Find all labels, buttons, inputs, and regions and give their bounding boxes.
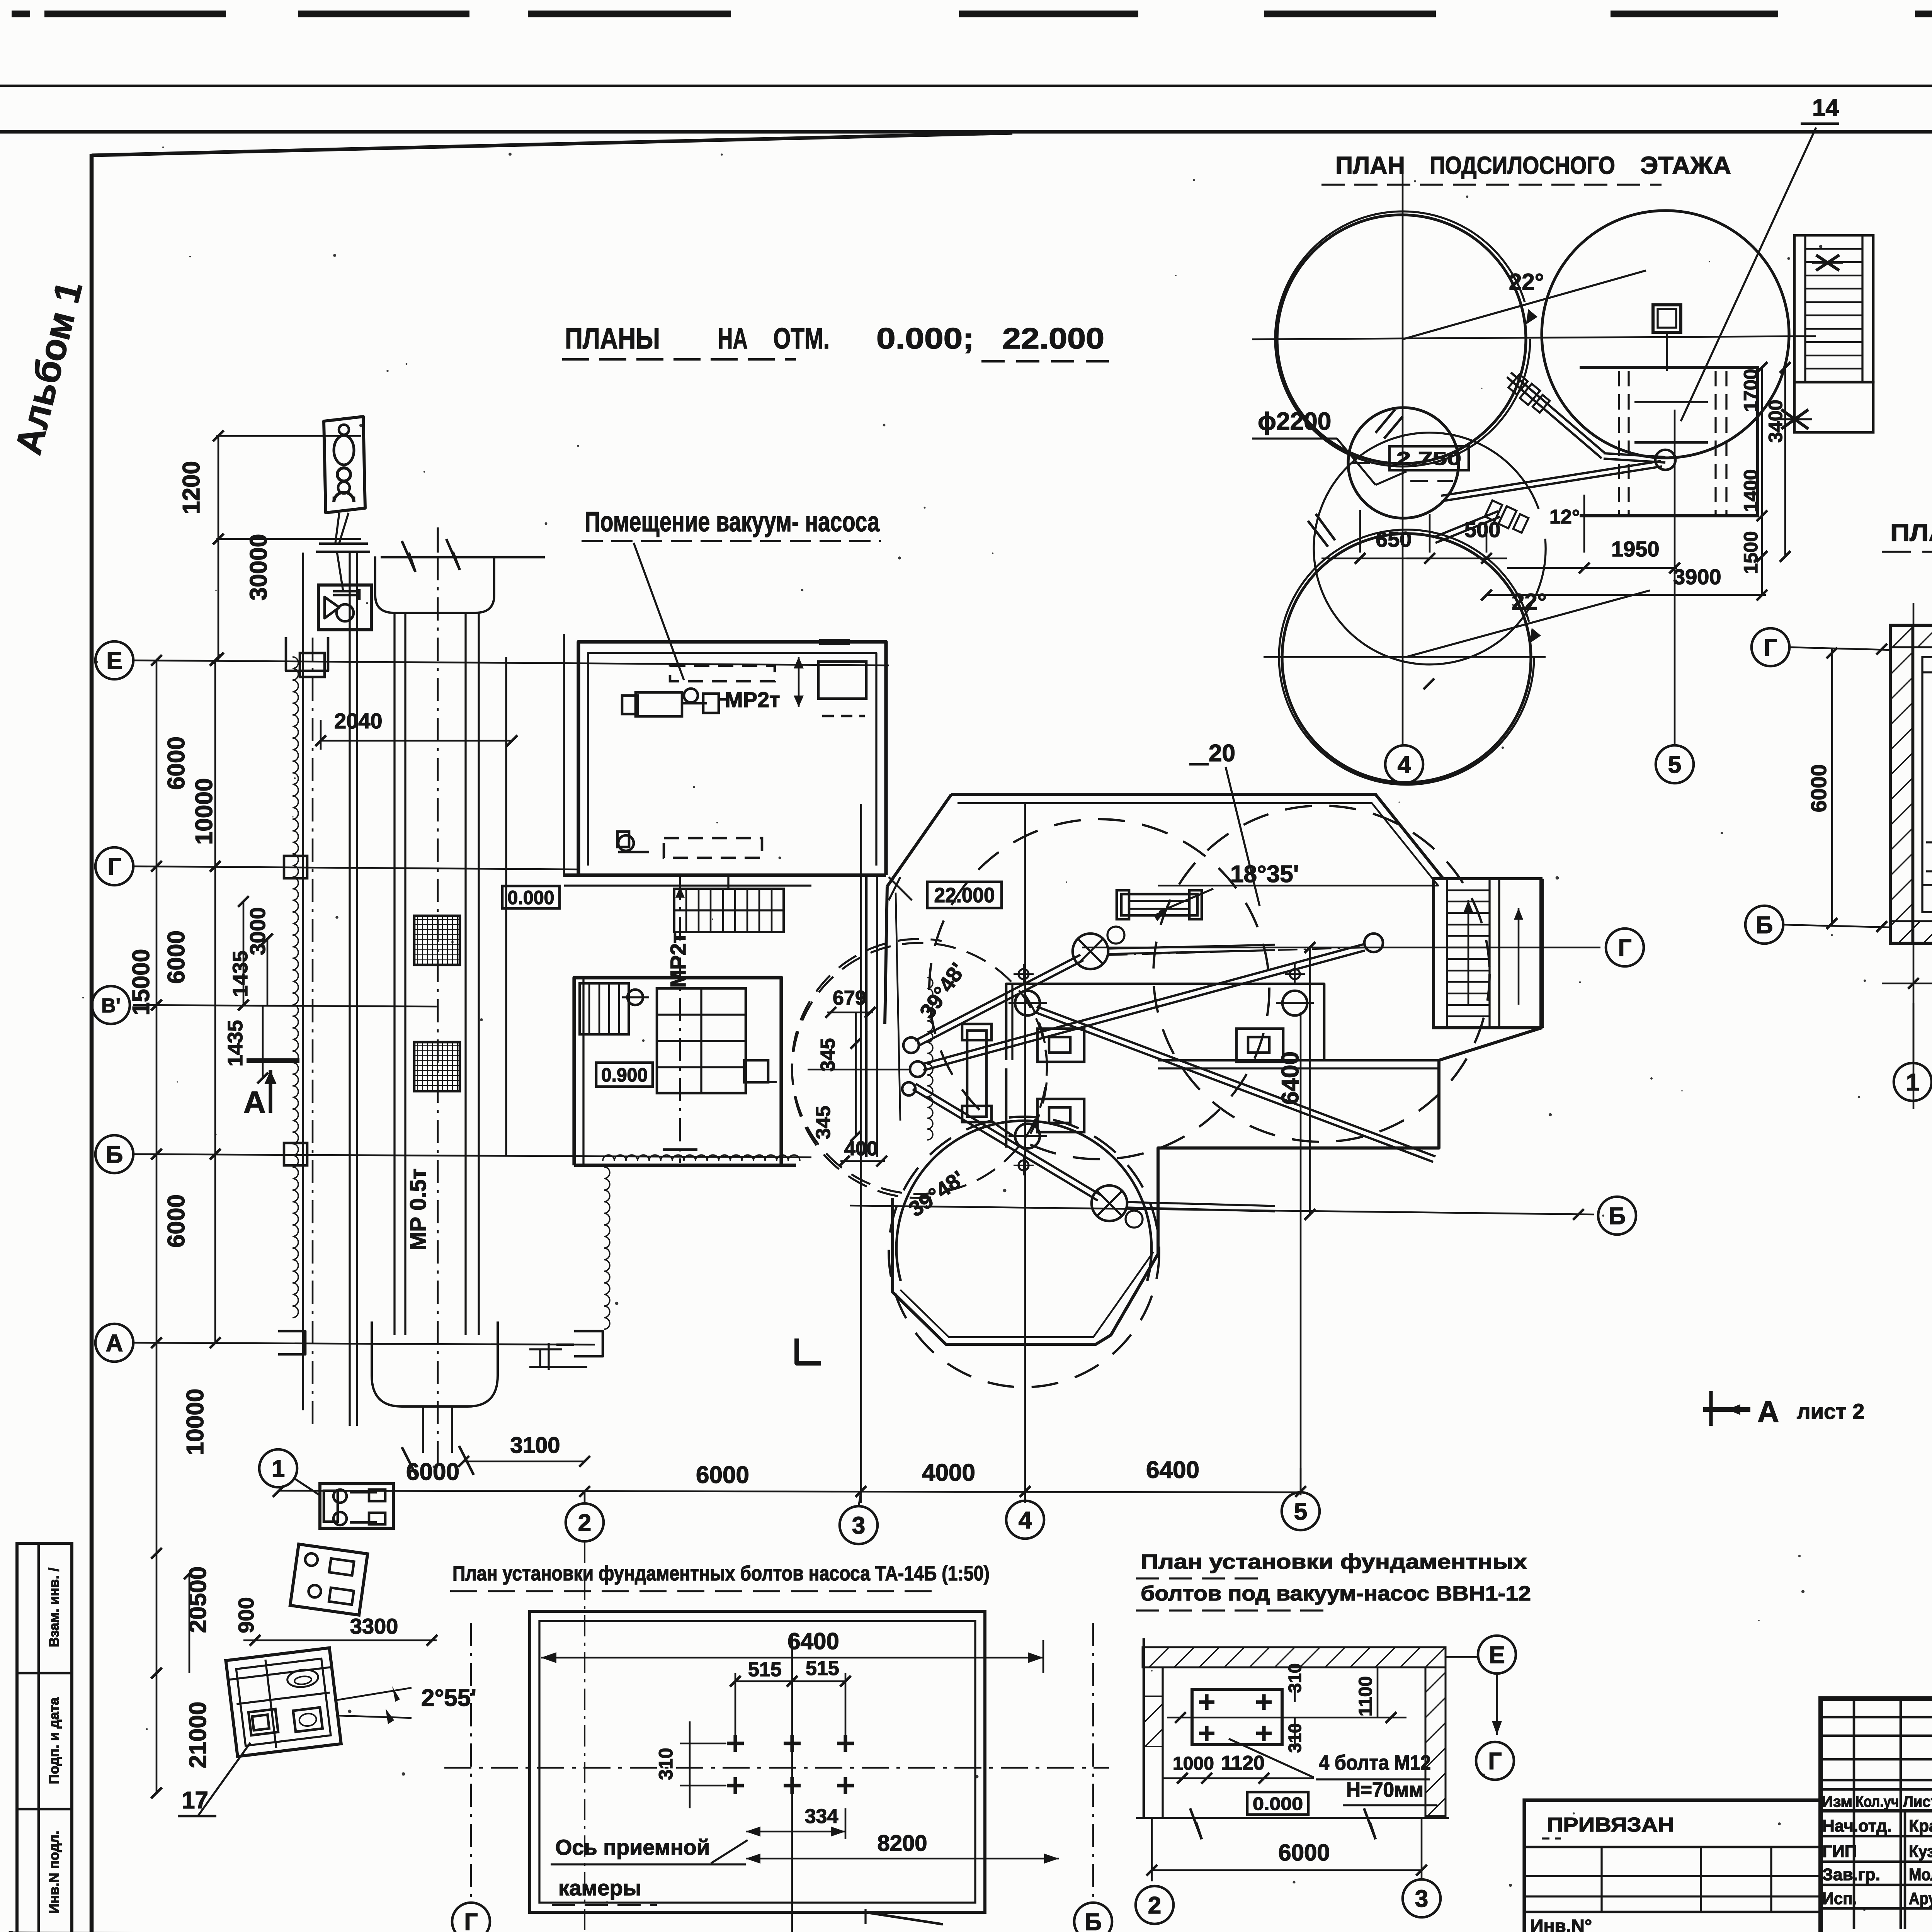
rotated square detail 17 xyxy=(226,1648,341,1757)
svg-text:Г: Г xyxy=(107,854,121,880)
angle arcs 39-48 top xyxy=(792,939,1047,1194)
svg-text:3100: 3100 xyxy=(510,1433,560,1458)
bottom left step walls xyxy=(574,1331,603,1356)
svg-text:20: 20 xyxy=(1209,740,1235,767)
axis 1 leader xyxy=(294,1478,320,1495)
svg-text:ПЛАНЫ: ПЛАНЫ xyxy=(565,322,660,355)
dim 6400 top xyxy=(541,1657,1043,1659)
staircase right xyxy=(1434,879,1541,1028)
axis circle 4 silo xyxy=(1385,745,1423,783)
svg-text:Б: Б xyxy=(1085,1909,1102,1932)
svg-text:1100: 1100 xyxy=(1355,1676,1376,1716)
rail centerline a xyxy=(312,638,314,1430)
svg-text:22.000: 22.000 xyxy=(1002,322,1104,355)
svg-text:Б: Б xyxy=(1609,1203,1626,1230)
svg-text:30000: 30000 xyxy=(245,534,272,600)
bolt plan2 bottom line xyxy=(1136,1817,1449,1819)
svg-text:3000: 3000 xyxy=(245,907,270,956)
plan 2500 wall hatch bottom xyxy=(1890,921,1932,943)
dim 1435 a xyxy=(267,939,269,1005)
svg-text:Е: Е xyxy=(1489,1642,1505,1668)
bolt plan1 outer rect xyxy=(530,1611,985,1912)
svg-text:3400: 3400 xyxy=(1765,400,1786,442)
stairs hash top xyxy=(1816,255,1839,270)
titleblock signature rows xyxy=(1821,1835,1932,1838)
svg-text:12°: 12° xyxy=(1549,506,1580,528)
bolt plan2 top wall hatch xyxy=(1143,1647,1446,1667)
plan 2500 wall hatch left xyxy=(1890,625,1912,943)
svg-text:Г: Г xyxy=(1618,935,1631,961)
svg-text:4000: 4000 xyxy=(922,1459,975,1486)
svg-text:6000: 6000 xyxy=(1806,764,1831,813)
bolt plan2 crosses xyxy=(1199,1700,1214,1704)
dim 515 515 xyxy=(735,1680,845,1682)
lower room circle xyxy=(628,990,643,1005)
svg-text:1: 1 xyxy=(1906,1069,1919,1096)
hopper mouth xyxy=(375,556,494,613)
svg-text:345: 345 xyxy=(817,1038,839,1072)
dim 900 xyxy=(189,1574,190,1673)
equip box 2 xyxy=(1037,1099,1084,1132)
silo centerline horizontal bottom xyxy=(1264,656,1546,658)
valve box xyxy=(318,585,371,630)
silo pipe from top silo xyxy=(1507,377,1602,458)
frame bottom left end blob xyxy=(7,1931,14,1932)
hopper break marks xyxy=(402,541,415,572)
elevation 0.000 box xyxy=(502,886,560,908)
axis G line right xyxy=(1082,947,1600,949)
privyazan box xyxy=(1524,1800,1821,1932)
svg-text:Е: Е xyxy=(106,648,122,674)
pipe B long diagonal xyxy=(923,951,1365,1070)
bolt plan1 title underline xyxy=(450,1590,935,1592)
equipment room rect xyxy=(1006,984,1324,1060)
stairs lower landing xyxy=(1794,382,1873,432)
silo right dims xyxy=(1761,367,1763,595)
svg-text:А: А xyxy=(106,1330,123,1357)
bolt plan1 inner rect xyxy=(539,1621,975,1903)
axis line G xyxy=(133,866,578,869)
svg-text:А: А xyxy=(243,1085,266,1119)
elbow TR small xyxy=(1364,934,1383,952)
lower room inner lines xyxy=(582,978,584,1165)
rail line d2 xyxy=(478,613,480,1335)
silo centerline vertical xyxy=(1402,166,1404,707)
svg-text:ϕ2200: ϕ2200 xyxy=(1258,407,1331,435)
dim line below A 10000 xyxy=(156,1343,158,1553)
axis circle 2 bottom xyxy=(566,1503,604,1541)
svg-text:0.900: 0.900 xyxy=(601,1064,648,1086)
dim tick room xyxy=(798,657,800,707)
axis circle B right xyxy=(1598,1197,1636,1235)
svg-text:Помещение вакуум- насоса: Помещение вакуум- насоса xyxy=(585,507,880,537)
svg-text:Взам. инв. /: Взам. инв. / xyxy=(46,1568,62,1647)
plan axis 4 vertical xyxy=(1024,804,1026,1503)
svg-text:650: 650 xyxy=(1376,527,1412,551)
stamp table frame xyxy=(17,1543,72,1932)
axis 2 dashdot through plan1 xyxy=(584,1542,585,1932)
dim 1100 xyxy=(1377,1667,1379,1718)
silo circle bottom xyxy=(1282,534,1531,782)
axis circle G boltplan xyxy=(452,1903,490,1932)
axis circle 1 plan2500 xyxy=(1894,1063,1932,1101)
silo room dashed walls xyxy=(1618,371,1620,514)
svg-text:МР2т: МР2т xyxy=(666,933,690,988)
silo dim 650 xyxy=(1359,510,1361,553)
hatch grid upper xyxy=(414,916,460,965)
bolt plan2 centerline xyxy=(1167,1717,1406,1719)
silo circle top-right xyxy=(1542,211,1789,458)
lower room stair xyxy=(580,983,629,1034)
cloud break line left xyxy=(604,1167,610,1329)
plan 2500 outer wall xyxy=(1890,625,1932,943)
equipment bar top xyxy=(1121,894,1197,915)
dim 6400 vertical right xyxy=(1309,947,1311,1214)
svg-text:А: А xyxy=(1757,1395,1779,1429)
titleblock outer xyxy=(1821,1699,1932,1932)
axis circle B boltplan xyxy=(1074,1903,1112,1932)
svg-text:6000: 6000 xyxy=(163,736,190,790)
axis circle E xyxy=(95,641,133,679)
dim 310 b xyxy=(1294,1718,1296,1745)
dim 345 lower xyxy=(855,1080,857,1136)
svg-text:Б: Б xyxy=(106,1141,123,1168)
tick cross on outline xyxy=(889,877,912,900)
svg-text:6400: 6400 xyxy=(787,1628,839,1654)
axis circle 2 plan2 xyxy=(1136,1886,1173,1924)
column bracket top xyxy=(286,637,328,671)
privyazan rows xyxy=(1524,1846,1821,1849)
svg-text:515: 515 xyxy=(806,1657,839,1680)
axis line A xyxy=(133,1343,595,1345)
titleblock change table columns xyxy=(1853,1699,1855,1929)
axis circle G xyxy=(95,847,133,885)
svg-text:лист 2: лист 2 xyxy=(1797,1399,1864,1423)
bolt plan1 axis B vert xyxy=(1092,1623,1094,1901)
plan 2500 title underline xyxy=(1882,551,1932,553)
hoist flange xyxy=(319,543,368,545)
dim 21000 xyxy=(156,1673,158,1793)
silo pipe junction xyxy=(1604,459,1665,463)
svg-text:Кузнецов: Кузнецов xyxy=(1909,1842,1932,1861)
room label leader xyxy=(634,543,684,680)
axis circle 5 bottom xyxy=(1282,1492,1320,1530)
feeder pipe horizontal xyxy=(1108,950,1275,954)
svg-text:6000: 6000 xyxy=(1278,1840,1330,1866)
svg-text:2°55': 2°55' xyxy=(421,1685,476,1711)
svg-text:6000: 6000 xyxy=(163,930,190,984)
bolt plan1 centerline horizontal xyxy=(444,1767,1109,1769)
angle 22 top xyxy=(1403,270,1646,339)
dim 1435 b xyxy=(262,1005,264,1078)
svg-text:Ось приемной: Ось приемной xyxy=(555,1835,710,1859)
titleblock change table rows xyxy=(1821,1716,1932,1719)
svg-text:14: 14 xyxy=(1812,95,1839,121)
svg-text:В': В' xyxy=(101,995,121,1017)
elevation 0.900 box xyxy=(596,1063,653,1087)
bolt plan2 right wall hatch xyxy=(1425,1667,1446,1816)
svg-text:10000: 10000 xyxy=(182,1389,209,1455)
hopper top line xyxy=(381,556,545,559)
svg-text:ПЛАН: ПЛАН xyxy=(1890,520,1932,546)
rail line b1 xyxy=(349,553,350,1426)
svg-text:Арутюнянц: Арутюнянц xyxy=(1909,1889,1932,1908)
svg-text:22°: 22° xyxy=(1509,269,1544,295)
dim 334 xyxy=(746,1831,845,1833)
svg-text:Г: Г xyxy=(1488,1748,1502,1775)
axis line E xyxy=(133,660,889,665)
paper top edge line xyxy=(0,85,1932,87)
dashed platform top xyxy=(670,666,775,681)
small room top right xyxy=(818,662,866,699)
svg-text:6000: 6000 xyxy=(406,1459,459,1485)
rail line left scallop xyxy=(293,657,298,1318)
svg-text:Молоткова: Молоткова xyxy=(1909,1865,1932,1884)
lower room bottom xyxy=(574,1163,796,1167)
axis B line right xyxy=(850,1206,1594,1214)
rail line c1 xyxy=(393,613,395,1335)
column marker B xyxy=(284,1143,307,1165)
small pump bottom left xyxy=(618,835,634,851)
silo circle top-left xyxy=(1277,215,1526,464)
lower room outer xyxy=(574,978,781,1165)
vacuum room left pilaster xyxy=(563,634,565,877)
svg-text:Г: Г xyxy=(464,1909,478,1932)
svg-text:1435: 1435 xyxy=(229,951,252,997)
svg-text:4: 4 xyxy=(1019,1507,1032,1534)
axis circle B xyxy=(95,1135,133,1173)
axis circle V1 xyxy=(92,986,130,1024)
pipe D elbow to lower right xyxy=(1034,1012,1433,1162)
axis circle 3 bottom xyxy=(840,1506,878,1544)
svg-text:334: 334 xyxy=(805,1805,838,1828)
rail bottom funnel xyxy=(372,1321,498,1406)
elbow bottom xyxy=(1092,1185,1127,1221)
svg-text:Подп. и дата: Подп. и дата xyxy=(46,1697,62,1784)
room door top right xyxy=(819,639,850,645)
dim 6000 left vert xyxy=(1831,649,1833,927)
svg-text:План установки фундаментных: План установки фундаментных xyxy=(1141,1550,1527,1573)
svg-text:НА: НА xyxy=(718,322,748,355)
bolt plan1 door break xyxy=(866,1912,943,1924)
svg-text:310: 310 xyxy=(655,1748,677,1780)
section mark A bottom xyxy=(1709,1391,1713,1426)
silo pipe stubs small circle xyxy=(1376,410,1395,433)
bolt crosses plan1 xyxy=(727,1742,744,1745)
rail line e xyxy=(505,657,507,1155)
dim 345 upper xyxy=(855,1012,857,1080)
silo centerline horizontal top xyxy=(1252,336,1816,339)
equipment grid table xyxy=(657,988,746,1093)
funnel stem xyxy=(422,1406,424,1453)
scan speckle dots xyxy=(883,424,886,427)
dim 3000 xyxy=(243,901,245,1005)
rail line c2 xyxy=(404,613,406,1335)
svg-text:ПОДСИЛОСНОГО: ПОДСИЛОСНОГО xyxy=(1430,151,1615,179)
equip box 3 xyxy=(1236,1029,1283,1062)
stair below room xyxy=(674,889,784,932)
dim 3100 xyxy=(464,1461,585,1463)
axis circle A xyxy=(95,1324,133,1362)
svg-text:21000: 21000 xyxy=(185,1702,211,1768)
svg-text:10000: 10000 xyxy=(191,778,218,845)
svg-text:4: 4 xyxy=(1398,752,1411,778)
corridor wall right of lower room xyxy=(865,875,868,1157)
pipe A hub to TL elbow xyxy=(918,960,1083,1046)
cloud at pipe entry xyxy=(927,978,933,1140)
dim 310 plan1 xyxy=(689,1721,691,1808)
hoist rod xyxy=(337,552,343,591)
svg-text:Кол.уч: Кол.уч xyxy=(1855,1793,1899,1810)
axis B left circle xyxy=(1745,906,1783,944)
silo stairs top right xyxy=(1794,235,1873,382)
svg-text:3: 3 xyxy=(852,1512,865,1539)
room label underline xyxy=(582,540,881,542)
svg-text:Нач.отд.: Нач.отд. xyxy=(1822,1816,1892,1835)
angle arcs 39-48 bottom xyxy=(792,943,1047,1198)
svg-text:Зав.гр.: Зав.гр. xyxy=(1822,1865,1880,1884)
rail line d1 xyxy=(464,613,466,1335)
silo dashed circle top-left xyxy=(929,819,1269,1159)
svg-text:1200: 1200 xyxy=(178,461,205,514)
svg-text:ОТМ.: ОТМ. xyxy=(773,322,830,355)
plan 2500 inner wall line xyxy=(1922,657,1932,912)
axis verticals 2500 xyxy=(1913,603,1915,1109)
elevation 2.750 box xyxy=(1389,446,1469,470)
svg-text:8200: 8200 xyxy=(877,1831,927,1856)
bolt plan2 underline xyxy=(1136,1577,1260,1579)
svg-text:болтов под вакуум-насос ВВН: болтов под вакуум-насос ВВН1-12 xyxy=(1141,1582,1531,1605)
title underline dashes xyxy=(562,358,796,361)
svg-text:ПЛАН: ПЛАН xyxy=(1335,151,1405,179)
elevation 0.000 box plan2 xyxy=(1247,1792,1308,1815)
vacuum room outer wall xyxy=(578,642,886,875)
small square lower right xyxy=(744,1060,768,1082)
svg-text:ПРИВЯЗАН: ПРИВЯЗАН xyxy=(1547,1814,1674,1836)
column marker G xyxy=(284,856,307,878)
svg-text:6400: 6400 xyxy=(1277,1051,1304,1105)
svg-text:15000: 15000 xyxy=(128,949,155,1015)
dim 1200 top xyxy=(216,435,361,437)
bolt plan1 axis G vert xyxy=(470,1623,472,1901)
svg-text:Инв.N подл.: Инв.N подл. xyxy=(46,1831,62,1914)
equip circle tl xyxy=(1015,991,1040,1015)
svg-text:900: 900 xyxy=(234,1597,258,1633)
silo pipe lower flanges xyxy=(1485,500,1529,534)
silo dim 3900 xyxy=(1486,594,1766,596)
svg-text:1700: 1700 xyxy=(1740,369,1762,412)
pump unit MR2t xyxy=(636,692,682,716)
pipe hub circles xyxy=(903,1037,919,1053)
svg-text:2.750: 2.750 xyxy=(1396,449,1461,469)
svg-text:2: 2 xyxy=(1148,1892,1161,1919)
bolt plan1 centerline vertical xyxy=(791,1634,793,1932)
silo dim 500 xyxy=(1429,514,1431,553)
equip small circles xyxy=(1019,969,1029,979)
svg-text:345: 345 xyxy=(812,1106,835,1139)
svg-text:0.000: 0.000 xyxy=(508,887,554,908)
svg-text:1435: 1435 xyxy=(224,1020,247,1066)
dim 2040 xyxy=(321,740,512,742)
svg-text:камеры: камеры xyxy=(558,1876,641,1900)
svg-text:1: 1 xyxy=(272,1456,285,1482)
plan 2500 wall hatch top xyxy=(1890,625,1932,647)
funnel break xyxy=(402,1447,417,1476)
svg-text:2040: 2040 xyxy=(334,709,383,733)
rail centerline b xyxy=(437,557,439,1468)
column marker A xyxy=(278,1331,305,1354)
svg-text:3900: 3900 xyxy=(1673,565,1721,589)
svg-text:3: 3 xyxy=(1415,1886,1428,1912)
svg-text:4 болта М12: 4 болта М12 xyxy=(1319,1751,1431,1774)
svg-text:17: 17 xyxy=(182,1787,208,1814)
dim 20500 xyxy=(156,1553,158,1673)
angle 22 bottom xyxy=(1406,590,1650,657)
silo small circle dashes xyxy=(1352,462,1387,464)
svg-text:ЭТАЖА: ЭТАЖА xyxy=(1640,151,1731,179)
axis circle G plan2 xyxy=(1476,1742,1514,1780)
label 17 leader xyxy=(198,1743,250,1816)
bottom dim line main xyxy=(278,1491,1301,1492)
stairs hash bottom xyxy=(1781,410,1808,429)
scan artifact dashes top xyxy=(12,10,30,17)
dim 30000 xyxy=(218,539,219,660)
svg-text:1500: 1500 xyxy=(1740,531,1762,574)
svg-text:МР 0.5т: МР 0.5т xyxy=(406,1168,431,1250)
svg-text:22.000: 22.000 xyxy=(934,884,995,907)
vacuum room inner wall xyxy=(588,653,876,866)
svg-text:6400: 6400 xyxy=(1146,1457,1199,1483)
silo plan title underline xyxy=(1321,184,1662,185)
angle 2-55 dim xyxy=(336,1688,412,1700)
equip circle tr xyxy=(1282,991,1307,1015)
rail col line a xyxy=(302,553,304,1410)
stair rail stem xyxy=(727,875,729,889)
silo dashed circle top-right xyxy=(1153,806,1490,1142)
pump unit lower xyxy=(290,1544,368,1615)
bunker dashes left xyxy=(1926,841,1932,843)
pump unit upper xyxy=(320,1484,393,1528)
svg-text:Н=70мм: Н=70мм xyxy=(1346,1778,1423,1801)
section mark A left xyxy=(247,1058,299,1063)
svg-text:ГИП: ГИП xyxy=(1822,1842,1857,1861)
elevation 22.000 box xyxy=(927,882,1002,908)
svg-text:Инв.N°: Инв.N° xyxy=(1530,1916,1592,1932)
left vertical dim line 1 xyxy=(156,660,158,1343)
L mark xyxy=(797,1338,821,1363)
svg-text:План установки фундаментных бо: План установки фундаментных болтов насос… xyxy=(452,1562,990,1585)
svg-text:22°: 22° xyxy=(1512,589,1547,615)
feeder pipe bottom xyxy=(1127,1207,1275,1211)
svg-text:1400: 1400 xyxy=(1740,469,1762,512)
cloud break line bottom xyxy=(603,1155,800,1161)
axis circle E plan2 xyxy=(1478,1636,1516,1673)
os leader xyxy=(711,1840,748,1863)
plan 22000 inner outline xyxy=(957,803,1438,886)
axis G left circle xyxy=(1752,628,1789,666)
silo room rect xyxy=(1580,367,1758,516)
room bottom wall lines xyxy=(564,873,886,877)
vertical equipment column xyxy=(967,1031,986,1117)
svg-text:Исп.: Исп. xyxy=(1822,1889,1857,1908)
frame top line xyxy=(0,130,1932,133)
axis circle 5 silo xyxy=(1656,745,1694,783)
svg-text:0.000: 0.000 xyxy=(1253,1794,1303,1814)
svg-text:679: 679 xyxy=(833,987,866,1009)
svg-text:310: 310 xyxy=(1285,1663,1305,1693)
frame top-left slanted segment xyxy=(92,133,1012,155)
dashed platform bottom xyxy=(664,838,762,858)
